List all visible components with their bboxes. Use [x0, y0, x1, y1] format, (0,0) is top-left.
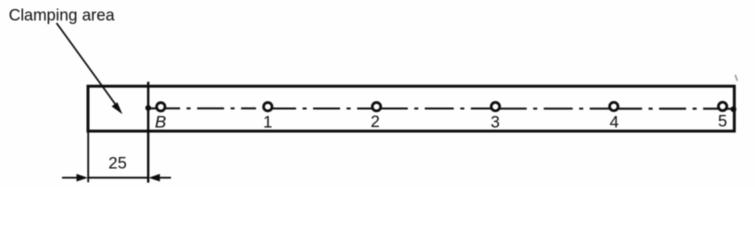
- right dimension arrow (outside, pointing left): [149, 174, 172, 182]
- clamp boundary line (vertical at x=148): [147, 82, 149, 183]
- scan artifact tick above top-right corner: [735, 75, 737, 81]
- leader line (Clamping area arrow): [57, 23, 123, 114]
- svg-text:25: 25: [108, 155, 126, 173]
- svg-text:B: B: [155, 113, 166, 132]
- hole 4: [610, 102, 618, 110]
- svg-text:4: 4: [610, 113, 619, 131]
- left dimension arrow (outside, pointing right): [62, 174, 88, 182]
- svg-text:3: 3: [491, 113, 500, 131]
- node dot on clamp line: [145, 105, 151, 111]
- hole 2: [372, 103, 380, 111]
- svg-text:Clamping area: Clamping area: [9, 7, 116, 25]
- centerline segment B to 1: [165, 107, 263, 109]
- hole 5: [718, 102, 726, 110]
- left extension line: [87, 131, 89, 182]
- svg-text:2: 2: [371, 113, 380, 131]
- centerline segment 1 to 2: [272, 107, 372, 109]
- dimension line 25: [88, 177, 148, 179]
- svg-text:1: 1: [263, 114, 272, 132]
- centerline segment 5 to end: [727, 108, 734, 110]
- bar outline (specimen rectangle): [88, 86, 734, 131]
- centerline segment 2 to 3: [381, 107, 491, 109]
- node dot at right end: [731, 106, 737, 112]
- hole 3: [491, 102, 499, 110]
- centerline segment 4 to 5: [618, 108, 718, 110]
- svg-text:5: 5: [718, 113, 727, 131]
- centerline segment clamp to B: [148, 107, 157, 109]
- hole 1: [264, 103, 272, 111]
- centerline segment 3 to 4: [500, 108, 610, 110]
- hole B: [157, 103, 165, 111]
